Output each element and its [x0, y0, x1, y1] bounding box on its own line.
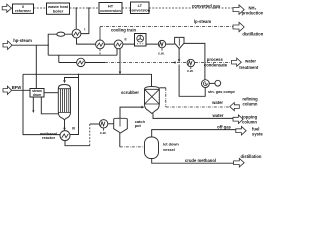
- arrow from refining column (points left): [211, 97, 258, 111]
- wire: dashed converted-gas header through top boxes: [12, 7, 233, 9]
- syn gas compressor: [202, 80, 236, 94]
- svg-text:column: column: [242, 119, 257, 124]
- svg-text:system: system: [252, 131, 263, 136]
- wire: interchanger I outlet to cooling train: [77, 38, 175, 44]
- orifice lozenge: [57, 32, 65, 36]
- wire: feed line down-leg to interchanger III: [23, 74, 60, 134]
- reformer box: [13, 4, 34, 13]
- wire: reactor feed jog with arrowhead: [63, 78, 78, 84]
- wire: steam drum riser from reactor: [44, 92, 58, 94]
- catch pot vessel: [114, 118, 146, 133]
- node: junctions: [36, 7, 90, 75]
- svg-text:reactor: reactor: [42, 135, 56, 140]
- wire: line b lower header: [48, 49, 117, 56]
- wire: cooler 2 drop to converter feed line: [119, 49, 122, 75]
- svg-text:water: water: [212, 113, 224, 118]
- condensate cooler c.w.: [187, 59, 194, 73]
- svg-text:treatment: treatment: [239, 65, 259, 70]
- waste heat boiler box: [47, 3, 70, 14]
- wire: left riser and lozenge line: [48, 34, 72, 55]
- wire: separator gas to syn gas compressor: [184, 43, 205, 79]
- arrow to topping column: [212, 113, 258, 125]
- air cooler box with fan: [135, 34, 147, 47]
- wire: separator liquid drop with arrowhead: [173, 49, 181, 64]
- svg-text:converted gas: converted gas: [192, 3, 221, 8]
- label process condensate: [204, 57, 228, 67]
- svg-text:water: water: [211, 100, 223, 105]
- let-down vessel: [145, 137, 180, 159]
- wire: steam drum riser to hp-steam: [35, 45, 37, 88]
- svg-text:column: column: [243, 101, 258, 106]
- svg-text:condensate: condensate: [204, 63, 228, 68]
- wire: condensate line to water treatment: [59, 62, 231, 64]
- svg-text:production: production: [242, 10, 263, 15]
- LT conversion box: [129, 2, 150, 14]
- svg-text:hp-steam: hp-steam: [13, 38, 32, 43]
- methanol reactor vessel: [58, 85, 70, 120]
- heat exchanger on condensate line: [77, 58, 85, 66]
- wire: cooler to catch pot: [108, 123, 114, 125]
- cooler 2: [114, 38, 126, 49]
- svg-text:conversion: conversion: [100, 8, 121, 13]
- scrubber vessel: [145, 87, 160, 114]
- interchanger III: [60, 131, 70, 141]
- svg-text:conversion: conversion: [129, 7, 150, 12]
- wire: compressor discharge loop: [179, 65, 205, 97]
- svg-text:cooling train: cooling train: [111, 28, 137, 33]
- svg-text:BFW: BFW: [12, 85, 22, 90]
- svg-text:III: III: [72, 126, 75, 130]
- svg-text:II: II: [125, 38, 127, 42]
- hp-steam feed arrow: [3, 38, 32, 50]
- BFW feed arrow: [3, 85, 21, 94]
- wire: drop from line b to condensate line: [58, 55, 60, 62]
- svg-text:c.w.: c.w.: [187, 69, 193, 73]
- svg-text:drum: drum: [33, 93, 41, 97]
- wire: interchanger III to effluent cooler: [65, 141, 90, 146]
- label methanol reactor: [40, 131, 57, 140]
- svg-text:off gas: off gas: [217, 124, 231, 129]
- svg-text:distillation: distillation: [242, 32, 263, 37]
- svg-text:I: I: [84, 28, 85, 32]
- wire: reactor bottom outlet: [63, 120, 75, 131]
- wire: catch pot overhead to scrubber: [120, 106, 144, 119]
- arrow to fuel system: [236, 126, 267, 136]
- arrow to distillation (lp-steam): [233, 22, 264, 36]
- svg-text:lp-steam: lp-steam: [194, 19, 211, 24]
- svg-text:let down: let down: [163, 141, 179, 146]
- arrow to water treatment: [232, 58, 259, 70]
- wire: converter feed line: [23, 74, 152, 86]
- wire: converted gas drop into loop: [81, 8, 89, 34]
- heat exchanger I: [72, 28, 85, 39]
- arrow to distillation (crude methanol): [234, 154, 262, 167]
- wire: hp-steam line: [12, 44, 48, 46]
- svg-text:crude methanol: crude methanol: [185, 158, 216, 163]
- svg-text:reformer: reformer: [15, 8, 31, 13]
- steam drum: [30, 89, 44, 98]
- separator vessel: [175, 37, 184, 48]
- wire: let-down vessel off gas to fuel system: [152, 124, 236, 137]
- effluent cooler c.w.: [99, 120, 107, 135]
- wire: steam drum blowdown stub: [32, 97, 34, 113]
- wire: BFW line to steam drum: [12, 89, 30, 91]
- arrow to NH3 production: [233, 5, 264, 15]
- svg-text:vessel: vessel: [163, 147, 175, 152]
- svg-text:process: process: [207, 57, 224, 62]
- svg-text:distillation: distillation: [241, 154, 262, 159]
- svg-text:scrubber: scrubber: [121, 90, 139, 95]
- wire: steam drum downcomer to reactor: [41, 97, 58, 114]
- svg-text:pot: pot: [135, 123, 142, 128]
- wire: interchanger III riser: [70, 74, 79, 134]
- wire: waste heat boiler drop to interchanger I: [75, 8, 77, 29]
- wire: crude methanol to distillation: [152, 158, 234, 163]
- svg-text:water: water: [244, 58, 256, 63]
- svg-text:c.w.: c.w.: [158, 52, 164, 56]
- svg-text:stn. gas compr: stn. gas compr: [208, 90, 236, 94]
- wire: lp-steam line to distillation: [100, 19, 233, 40]
- wire: scrubber wash water inlet from refining column: [159, 88, 230, 107]
- feed arrow into reformer: [2, 4, 11, 12]
- svg-text:boiler: boiler: [53, 8, 64, 13]
- HT conversion box: [99, 3, 122, 14]
- svg-text:c.w.: c.w.: [100, 131, 106, 135]
- wire: scrubber bottoms water to topping column: [153, 113, 233, 118]
- cooler 1: [96, 40, 105, 55]
- trim cooler c.w.: [158, 40, 166, 55]
- wire: catch pot bottoms to let-down vessel: [120, 133, 145, 147]
